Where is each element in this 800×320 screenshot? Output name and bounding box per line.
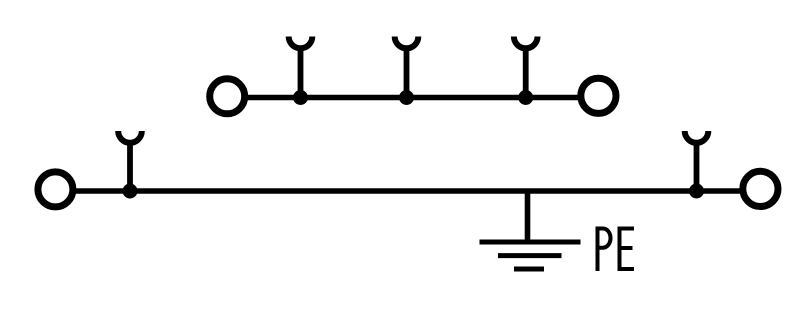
wire top bus (245, 95, 582, 101)
junction dot 3 (top rail) (518, 90, 533, 105)
junction dot 2 (top rail) (399, 90, 414, 105)
terminal circle right (bottom rail) (743, 171, 778, 206)
clamp contact 2 (top rail) (395, 37, 419, 98)
clamp contact 3 (top rail) (514, 37, 538, 98)
terminal circle right (top rail) (581, 78, 616, 113)
junction dot 4 (bottom rail) (123, 184, 138, 199)
clamp contact 4 (bottom rail) (118, 131, 142, 191)
wire ground stem (525, 191, 531, 242)
ground (PE earth symbol) (480, 242, 581, 269)
terminal circle left (bottom rail) (38, 172, 73, 207)
wire bottom bus (73, 188, 743, 194)
junction dot 1 (top rail) (293, 90, 308, 105)
clamp contact 5 (bottom rail) (685, 131, 709, 191)
label PE (598, 229, 635, 272)
junction dot 5 (bottom rail) (689, 184, 704, 199)
terminal circle left (top rail) (210, 79, 245, 114)
clamp contact 1 (top rail) (289, 37, 313, 98)
